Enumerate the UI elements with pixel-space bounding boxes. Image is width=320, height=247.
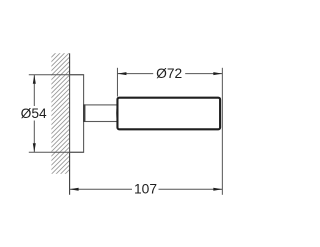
- wall hatching: [51, 53, 69, 174]
- dimension Ø72: arrowhead left: [117, 72, 126, 75]
- dimension 107: arrowhead left: [70, 188, 79, 191]
- dimension Ø54: extension line top: [29, 74, 84, 76]
- dimension Ø72: extension line left: [116, 68, 118, 97]
- dimension Ø72: dimension line: [117, 73, 153, 75]
- dimension Ø54: arrowhead down: [33, 143, 36, 152]
- svg-text:Ø54: Ø54: [21, 106, 47, 121]
- dimension Ø54: arrowhead up: [33, 75, 36, 84]
- flange (escutcheon Ø54, side view): [70, 75, 84, 153]
- svg-text:Ø72: Ø72: [156, 66, 182, 81]
- dimension Ø54: dimension line: [33, 75, 35, 106]
- dimension Ø72: extension line right (shared with dim 107): [221, 68, 223, 195]
- dimension Ø72: arrowhead right: [213, 72, 222, 75]
- stem: [85, 105, 118, 122]
- svg-text:107: 107: [134, 182, 157, 197]
- dimension Ø54: extension line bottom: [29, 151, 84, 153]
- dimension 107: dimension line: [70, 188, 132, 190]
- cup / glass (Ø72, side view, thick outline): [117, 98, 220, 130]
- wall surface line (also left extension line of dim 107): [69, 53, 71, 194]
- stem/cup joint curve: [116, 105, 119, 122]
- dimension 107: arrowhead right: [213, 188, 222, 191]
- stem/flange junction line: [83, 104, 85, 122]
